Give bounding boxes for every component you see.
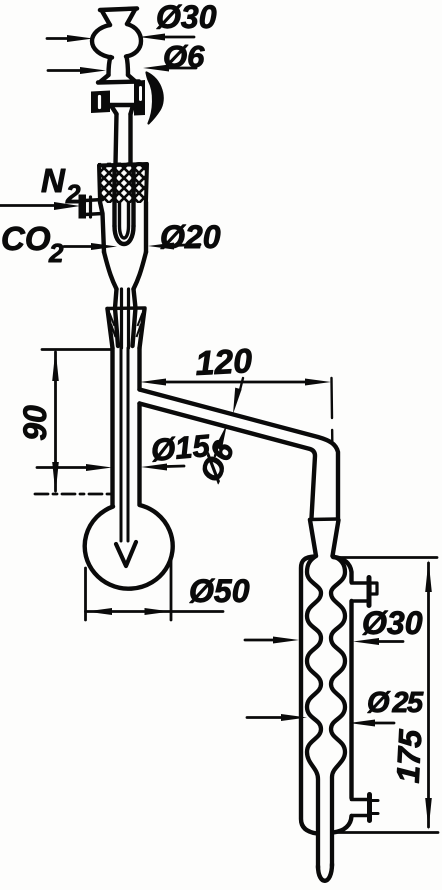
dim arrow d30 right [163,36,194,39]
dim 175 top arrowhead [425,560,432,592]
svg-text:175: 175 [390,728,429,784]
male joint tube outer walls [115,289,136,346]
dim 120 extension line [332,378,333,458]
dim arrow d6 left [48,69,82,72]
dim 90 top extension line [42,348,113,351]
dim arrow d25 right [374,722,394,725]
dim 90 bottom arrowhead [52,462,59,494]
dim 175 bottom extension line [338,831,438,834]
funnel neck to stopcock [109,57,129,76]
dim arrow d15 left [37,466,86,469]
dim arrow d6 right [166,67,196,70]
stopcock barrel [98,82,139,106]
joint hatch ticks [110,313,143,337]
lower nozzle [352,800,368,816]
inner tube tip V [116,542,136,566]
flask sphere [85,505,173,589]
svg-text:Ø50: Ø50 [189,573,250,609]
dim 90 vertical line [54,352,57,491]
svg-text:90: 90 [17,405,53,441]
funnel mouth walls [102,10,135,26]
svg-text:CO: CO [1,220,51,257]
stopcock flare bottom [111,106,133,115]
svg-text:2: 2 [65,179,81,209]
upper nozzle cap [367,578,372,606]
dim arrow d30 left [47,37,70,40]
dim arrow d15 right [167,465,184,468]
inner stem U bottom outer [115,226,134,244]
stopcock handle crescent [147,73,163,124]
svg-text:N: N [41,162,66,199]
svg-text:Ø 25: Ø 25 [367,687,424,719]
tube stopcock to joint [116,114,131,164]
dim 175 bottom arrowhead [425,798,432,830]
dim 120 line [163,381,308,384]
dim 175 vertical line [427,563,430,827]
male joint tube inner walls [122,289,129,348]
condenser jacket right wall bottom [333,816,352,833]
funnel bulb [92,24,141,58]
svg-text:2: 2 [48,238,64,268]
dim 175 top extension line [340,556,437,559]
dim arrow d30 cond left [245,639,274,642]
svg-text:Ø30: Ø30 [362,605,423,641]
dim 90 top arrowhead [52,349,59,381]
dim arrow d20 right [173,245,200,246]
stopcock nut left [91,91,110,114]
dim d6 arm upper arrow [240,378,243,390]
dim arrow d30 cond right [378,640,403,643]
svg-text:120: 120 [194,342,253,383]
dim d6 arm lower arrow [215,449,217,456]
condenser jacket left wall and shoulders [301,557,317,834]
condenser inner bulb tube left [307,556,321,868]
funnel mouth rim [100,9,137,11]
dim d50 right arrowhead [145,608,171,615]
N2 side arm [85,200,103,215]
downcomer joint rim [310,517,339,521]
dim arrow d25 left [247,716,282,719]
svg-text:Ø6: Ø6 [163,39,205,74]
inner stem U inner walls [120,203,129,238]
upper nozzle [352,583,369,601]
socket rim line [107,306,145,310]
dim 120 left arrowhead [140,379,166,386]
dim d50 left arrowhead [86,608,112,615]
lower nozzle cap [367,795,372,821]
side arm to condenser upper wall [140,390,339,519]
main tube d15 walls [113,348,140,506]
svg-text:Ø20: Ø20 [160,219,221,255]
svg-text:Ø30: Ø30 [156,0,217,35]
condenser inner bulb tube right [331,556,345,866]
N2 side arm flange cap [79,195,87,219]
N2 inlet arrow [0,204,55,207]
inner delivery tube [121,348,128,541]
outlet tube U bottom [318,864,332,881]
cone taper of outer tube [104,252,146,289]
dim d50 extension lines [86,556,172,620]
downcomer socket cone [310,520,339,556]
dim 120 right arrowhead [305,379,331,386]
condenser jacket right wall mid [349,601,353,798]
dim 90 bottom extension dash-dot [35,493,115,496]
inner stem tube walls in chamber [115,166,134,226]
side arm lower wall [140,404,316,519]
stopcock flare top [100,75,136,82]
socket walls [108,309,145,348]
dim arrow d20 left (CO2 arrow) [64,245,92,248]
outer tube d20 walls [100,202,146,252]
dim d50 line [86,610,224,613]
stopcock handle plate [134,80,145,116]
condenser jacket right wall upper [333,557,352,582]
